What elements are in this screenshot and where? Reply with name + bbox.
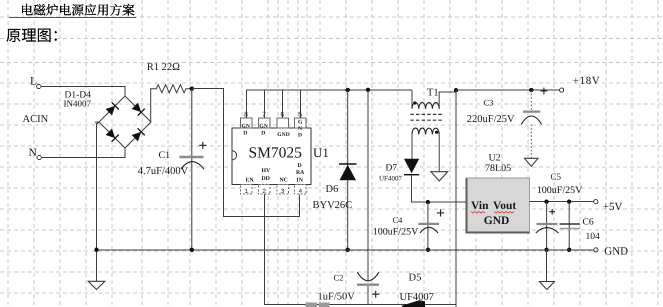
capacitor C5 100uF/25V (536, 172, 583, 250)
svg-text:C3: C3 (484, 97, 494, 107)
pin labels EN HVDD NC DRAIN (246, 163, 306, 184)
svg-text:104: 104 (586, 232, 601, 242)
wire D7 cathode to U2 Vin (412, 175, 466, 202)
svg-text:L: L (30, 76, 37, 88)
ground symbol (bridge) (88, 281, 105, 289)
node C4 top junction (426, 200, 430, 204)
svg-text:4.7uF/400V: 4.7uF/400V (138, 166, 189, 177)
net +18V (541, 75, 601, 94)
svg-text:GND: GND (484, 215, 510, 227)
svg-text:GN: GN (259, 123, 267, 129)
ic U1 SM7025 body (232, 128, 329, 185)
svg-text:D: D (298, 133, 302, 139)
svg-text:+18V: +18V (573, 75, 601, 87)
svg-text:R1 22Ω: R1 22Ω (147, 62, 180, 73)
node C3 tap (529, 88, 533, 92)
ground symbol (C5) (539, 282, 554, 290)
svg-text:DD: DD (262, 176, 270, 182)
svg-text:NC: NC (280, 178, 288, 184)
pin 3 (277, 185, 289, 196)
node C6 bottom on rail (567, 248, 571, 252)
subtitle 原理图： (7, 29, 57, 42)
svg-text:1: 1 (245, 188, 249, 195)
pin 2 (258, 185, 270, 196)
node R1 output junction (190, 87, 194, 91)
node C5 bottom on rail (544, 248, 548, 252)
node bridge/rail junction (94, 248, 98, 252)
svg-text:D: D (298, 163, 302, 169)
svg-text:C6: C6 (583, 217, 594, 227)
svg-text:D: D (261, 131, 265, 137)
capacitor C4 100uF/25V (373, 202, 444, 250)
svg-text:78L05: 78L05 (485, 163, 511, 174)
svg-text:4: 4 (299, 188, 303, 195)
terminal L (30, 76, 41, 89)
transformer T1 (410, 87, 456, 171)
pin 1 (241, 185, 253, 196)
resistor R1 22Ω (147, 62, 192, 122)
node D6 tap (346, 88, 350, 92)
svg-text:G: G (298, 119, 303, 125)
net GND (594, 245, 628, 257)
regulator U2 78L05 (466, 153, 530, 234)
svg-text:+5V: +5V (603, 201, 623, 213)
wire +18V drop to Vin (455, 90, 457, 307)
wire ground rail (97, 249, 594, 251)
svg-text:GN: GN (242, 123, 250, 129)
diode D7 UF4007 (379, 159, 419, 183)
svg-text:100uF/25V: 100uF/25V (373, 226, 419, 237)
svg-text:D6: D6 (326, 184, 339, 195)
svg-text:IN: IN (297, 178, 304, 184)
svg-text:T1: T1 (427, 87, 439, 98)
svg-text:GND: GND (277, 132, 289, 138)
svg-text:UF4007: UF4007 (379, 174, 402, 182)
node C2 tap (366, 88, 370, 92)
svg-text:1uF/50V: 1uF/50V (318, 292, 356, 303)
wire Vout to +5V (530, 201, 594, 203)
pin 5 GND (295, 112, 307, 128)
node C5 top (544, 200, 548, 204)
svg-text:U1: U1 (313, 145, 329, 160)
pin labels GND (top pins) (242, 119, 304, 138)
svg-text:SM7025: SM7025 (249, 144, 303, 161)
capacitor C6 104 (560, 202, 600, 250)
pin 6 GND (277, 112, 289, 128)
wire R1 junction to DRAIN pin 4 (192, 89, 299, 217)
svg-text:GND: GND (604, 245, 628, 257)
svg-text:N: N (298, 126, 302, 132)
schematic title 电磁炉电源应用方案 (9, 4, 136, 18)
svg-text:N: N (29, 147, 38, 159)
wire bridge negative to ground rail (97, 122, 100, 282)
svg-text:100uF/25V: 100uF/25V (537, 185, 583, 196)
svg-text:Vin: Vin (471, 200, 489, 212)
wire +18V rail (456, 89, 559, 91)
svg-text:HV: HV (262, 168, 272, 174)
node C6 top (567, 200, 571, 204)
svg-text:D7: D7 (386, 163, 398, 173)
pin 8 GND (241, 112, 253, 128)
svg-text:C2: C2 (334, 272, 344, 282)
node C4 bottom on rail (426, 248, 430, 252)
diode D6 BYV26C (313, 90, 357, 250)
svg-text:IN4007: IN4007 (64, 99, 92, 109)
svg-text:UF4007: UF4007 (400, 292, 434, 303)
node D6 anode on ground rail (346, 248, 350, 252)
node +18V junction (454, 88, 458, 92)
net +5V (594, 200, 623, 213)
pin 7 GND (258, 112, 270, 128)
svg-text:C4: C4 (393, 215, 404, 225)
svg-text:C5: C5 (551, 172, 562, 182)
svg-text:220uF/25V: 220uF/25V (467, 114, 515, 125)
wire HVDD pin 2 to bottom / C2 positive (264, 194, 456, 304)
svg-text:D: D (243, 131, 247, 137)
wire L to bridge top (41, 87, 125, 97)
svg-text:EN: EN (246, 178, 255, 184)
pin 4 (295, 185, 307, 196)
svg-text:Vout: Vout (493, 200, 516, 212)
svg-text:2: 2 (263, 188, 267, 195)
svg-text:BYV26C: BYV26C (313, 200, 353, 211)
wire C5 to ground (546, 250, 548, 282)
terminal N (29, 147, 42, 160)
svg-text:3: 3 (281, 188, 285, 195)
capacitor C2 1uF/50V (318, 90, 380, 305)
svg-text:U2: U2 (489, 153, 501, 164)
wire N to bridge bottom (41, 148, 125, 158)
scrollbar fragment bars (306, 303, 330, 307)
svg-text:D5: D5 (409, 272, 422, 283)
svg-text:RA: RA (296, 170, 305, 176)
diode D5 UF4007 (400, 272, 434, 307)
capacitor C1 4.7uF/400V (138, 89, 207, 250)
node C1/rail junction (190, 248, 194, 252)
capacitor C3 220uF/25V (467, 90, 542, 158)
bridge rectifier D1-D4 IN4007 (64, 91, 152, 149)
pin marker bridge left corner (95, 121, 98, 124)
ground symbol (T1 secondary) (431, 172, 448, 181)
svg-text:C1: C1 (159, 150, 171, 161)
wire GND bus pins 5-8 to T1 (246, 90, 412, 118)
svg-text:ACIN: ACIN (23, 114, 49, 125)
ground symbol (C3) (525, 158, 539, 166)
